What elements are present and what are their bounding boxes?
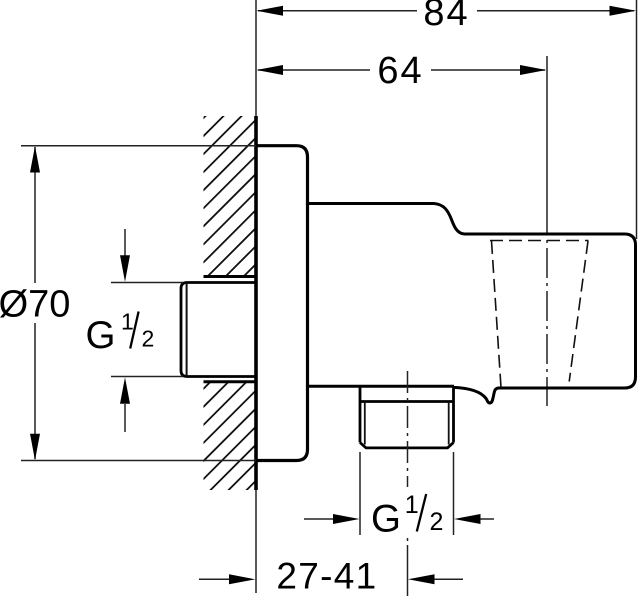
- svg-text:1: 1: [121, 309, 134, 335]
- svg-text:G: G: [371, 498, 401, 541]
- outlet axis extension (27-41): [407, 545, 409, 596]
- dim 84 text halo: [417, 0, 477, 27]
- holder axis centerline: [546, 234, 548, 406]
- inlet dim arrow top: [124, 229, 126, 257]
- dim 84 right arrowhead: [610, 6, 637, 16]
- right extension line for 84: [636, 0, 638, 239]
- inlet nipple G1/2 outline: [181, 283, 256, 377]
- holder axis extension line (64 dim): [546, 56, 548, 234]
- body bottom edge (flange to drip curve, across outlet nipple top): [308, 385, 455, 388]
- svg-text:G: G: [86, 314, 116, 357]
- inlet nipple shoulder line bottom: [204, 380, 257, 383]
- wall line (extension line full height): [255, 0, 257, 593]
- wall hatching: [0, 100, 639, 500]
- inlet nipple shoulder line top: [204, 275, 257, 278]
- svg-text:2: 2: [142, 326, 155, 352]
- svg-text:Ø70: Ø70: [0, 284, 70, 326]
- body outline: step, holder top, right edge, bottom, drip notch: [308, 204, 636, 404]
- svg-text:27-41: 27-41: [276, 556, 377, 596]
- outlet G1/2 dim arrows: [304, 518, 336, 520]
- outlet G1/2 text halo: [368, 487, 446, 538]
- diam 70 text halo: [0, 283, 70, 323]
- inlet dim arrow bottom: [124, 404, 126, 432]
- dim 84 left arrowhead: [257, 6, 284, 16]
- dim 84 line: [258, 10, 634, 12]
- dim 64 left arrowhead: [257, 65, 284, 75]
- diam 70 dim line: [34, 147, 36, 459]
- outlet axis centerline: [407, 371, 409, 545]
- svg-text:1: 1: [405, 491, 419, 519]
- outlet nipple shoulder: [360, 400, 454, 403]
- holder cone dashed left: [492, 241, 502, 388]
- inlet nipple top extension line: [111, 282, 183, 284]
- svg-text:64: 64: [377, 50, 423, 92]
- holder cone dashed right: [569, 241, 588, 382]
- diam 70 top arrowhead: [30, 146, 40, 173]
- flange bottom extension line (diam 70): [21, 460, 256, 462]
- flange top extension line (diam 70): [21, 145, 256, 147]
- outlet nipple chamfers and bottom: [360, 443, 454, 448]
- flange (escutcheon) outline: [256, 146, 308, 461]
- holder cone dashed top: [490, 240, 589, 242]
- diam 70 bottom arrowhead: [30, 434, 40, 461]
- inlet nipple thread inner line: [186, 283, 188, 377]
- svg-text:84: 84: [423, 0, 469, 34]
- dim 64 text halo: [370, 52, 431, 87]
- dim 64 line: [258, 69, 545, 71]
- outlet nipple right edge: [452, 387, 455, 442]
- dim 64 right arrowhead: [520, 65, 546, 75]
- outlet nipple inner thread lines: [365, 402, 449, 445]
- dim 27-41 left arrow: [199, 578, 232, 580]
- svg-text:2: 2: [430, 508, 444, 536]
- wall edge (thick): [254, 116, 258, 490]
- outlet nipple left edge: [359, 386, 362, 442]
- dim 27-41 right arrow: [432, 578, 463, 580]
- inlet nipple bottom extension line: [111, 376, 183, 378]
- outlet G1/2 extension lines: [360, 452, 454, 535]
